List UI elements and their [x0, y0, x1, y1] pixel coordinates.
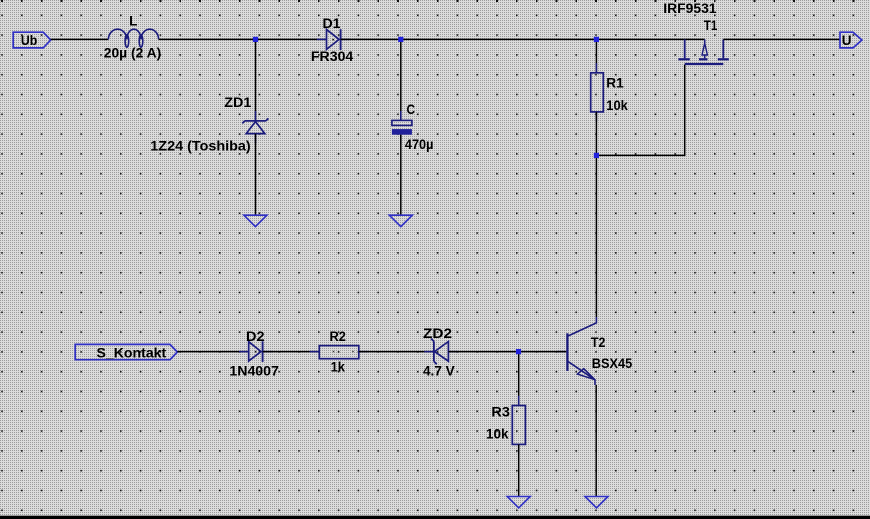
svg-text:IRF9531: IRF9531: [663, 1, 717, 16]
zener diode ZD2: [424, 339, 458, 365]
svg-text:Ub: Ub: [21, 33, 37, 48]
svg-text:20µ (2 A): 20µ (2 A): [104, 46, 161, 61]
terminal flag Ub: [13, 32, 51, 48]
wire R3 to ground: [518, 444, 520, 496]
svg-text:D1: D1: [323, 16, 342, 31]
svg-text:L: L: [129, 13, 137, 28]
terminal flag S_Kontakt: [75, 344, 177, 359]
svg-text:ZD1: ZD1: [224, 95, 252, 110]
resistor R2: [310, 346, 369, 359]
svg-text:1N4007: 1N4007: [229, 363, 279, 378]
svg-text:ZD2: ZD2: [423, 326, 452, 341]
svg-text:D2: D2: [246, 329, 265, 344]
wire R3 column upper: [518, 352, 520, 406]
node junction C/top rail: [398, 37, 403, 42]
node junction ZD1/top rail: [253, 37, 258, 42]
wire ZD1 column upper: [255, 39, 257, 121]
node junction R1 bottom: [594, 153, 599, 158]
svg-text:T2: T2: [591, 335, 606, 350]
ground symbol below R3: [507, 497, 530, 508]
node junction R3/base: [516, 349, 521, 354]
inductor L: [108, 29, 158, 47]
svg-text:470µ: 470µ: [405, 137, 434, 152]
ground symbol below ZD1: [244, 215, 267, 226]
resistor R3: [512, 396, 525, 454]
wire D1 to T1: [341, 38, 705, 40]
wire L to D1: [159, 38, 327, 40]
capacitor C: [392, 111, 412, 144]
transistor T2: [557, 317, 597, 385]
node junction R1/top rail: [594, 37, 599, 42]
svg-text:S_Kontakt: S_Kontakt: [97, 345, 167, 360]
wire C column upper: [400, 39, 402, 120]
svg-text:R3: R3: [491, 404, 510, 419]
svg-text:1k: 1k: [331, 360, 346, 375]
wire ZD2 to T2 base: [448, 351, 566, 353]
wire C to ground: [400, 135, 402, 216]
svg-text:1Z24 (Toshiba): 1Z24 (Toshiba): [150, 139, 250, 154]
wire T2 emitter to ground: [595, 385, 597, 497]
wire R2 to ZD2: [359, 351, 434, 353]
wire gate net: [596, 65, 684, 156]
wire T1 drain to U: [723, 38, 840, 40]
resistor R1: [591, 63, 604, 122]
wire ZD1 to ground: [255, 134, 257, 216]
wire T2 collector: [595, 155, 597, 317]
terminal flag U: [840, 32, 862, 48]
svg-text:T1: T1: [704, 18, 718, 33]
svg-text:C: C: [407, 102, 416, 117]
svg-text:10k: 10k: [486, 427, 509, 442]
diode D1: [317, 29, 351, 50]
svg-text:R2: R2: [330, 329, 346, 344]
svg-text:U: U: [842, 33, 852, 48]
svg-text:BSX45: BSX45: [592, 356, 633, 371]
wire S_Kontakt to D2: [177, 351, 248, 353]
wire R1 column upper: [595, 39, 597, 72]
wire Ub to L: [51, 38, 109, 40]
diode D2: [239, 341, 272, 362]
wire R1 to gate node: [595, 112, 597, 155]
ground symbol below C: [389, 215, 412, 226]
zener diode ZD1: [242, 111, 268, 144]
wire D2 to R2: [263, 351, 320, 353]
ground symbol below T2: [585, 497, 608, 508]
svg-text:FR304: FR304: [311, 49, 354, 64]
svg-text:10k: 10k: [606, 98, 628, 113]
svg-text:4.7 V: 4.7 V: [423, 364, 455, 379]
mosfet T1: [678, 39, 728, 64]
svg-text:R1: R1: [606, 76, 624, 91]
